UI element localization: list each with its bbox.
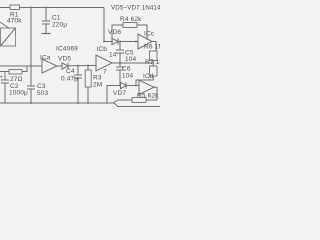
wire ICc out (152, 42, 156, 52)
wire VD5 to ICb (68, 65, 96, 67)
op-amp ICb (96, 55, 112, 71)
svg-text:7: 7 (103, 69, 107, 76)
resistor R7 (150, 66, 158, 76)
svg-text:104: 104 (125, 56, 137, 63)
svg-text:1000μ: 1000μ (9, 90, 28, 97)
piezo transducer B (0, 22, 16, 46)
node input junction (30, 65, 32, 67)
resistor R5 (113, 98, 157, 104)
svg-text:C6: C6 (122, 66, 131, 73)
svg-text:C4: C4 (66, 68, 75, 75)
node ladder tap (152, 62, 154, 64)
node VD6 anode rail (103, 41, 105, 43)
wire R6 to R7 (152, 61, 154, 67)
op-amp ICa (42, 59, 57, 73)
node VD7 ground (106, 102, 108, 104)
wire ground rail (0, 103, 160, 107)
svg-text:R4 62k: R4 62k (120, 16, 142, 23)
node C6 bottom junction (119, 85, 121, 87)
svg-text:ICd: ICd (143, 73, 154, 80)
node C5 top junction (119, 41, 121, 43)
svg-text:14: 14 (109, 52, 117, 59)
node ICd input junction (135, 85, 137, 87)
svg-text:R3: R3 (93, 75, 102, 82)
diode VD6 (112, 38, 118, 44)
svg-text:C3: C3 (37, 83, 46, 90)
capacitor C4 (74, 66, 82, 103)
node ICb out junction (119, 62, 121, 64)
svg-text:C1: C1 (52, 15, 61, 22)
svg-text:VD7: VD7 (113, 90, 126, 97)
op-amp ICd (139, 80, 154, 95)
wire VD7 to ICd (126, 85, 139, 87)
wire ICa out (57, 65, 62, 67)
svg-text:VD6: VD6 (108, 29, 121, 36)
svg-text:ICa: ICa (40, 55, 51, 62)
svg-text:ICb: ICb (97, 46, 108, 53)
wire top rail corner down (103, 8, 105, 42)
node ICc input junction (135, 41, 137, 43)
svg-text:470k: 470k (7, 18, 22, 25)
wire 27ohm branch right (22, 66, 27, 72)
node R4 left junction (111, 41, 113, 43)
wire VD6 cathode (118, 41, 138, 43)
svg-text:R6 1M: R6 1M (144, 44, 160, 51)
diode VD7 (121, 82, 127, 88)
svg-text:+: + (0, 75, 3, 81)
wire input line (0, 65, 42, 67)
wire ICb out (112, 62, 153, 64)
resistor R1 (10, 5, 20, 10)
resistor R6 (150, 51, 158, 61)
svg-text:220μ: 220μ (52, 22, 67, 29)
wire C3 column upper (30, 66, 32, 86)
diode VD5 (62, 63, 68, 69)
capacitor C1 (42, 8, 51, 34)
svg-text:2M: 2M (93, 82, 102, 89)
node R1 junction (30, 7, 32, 9)
svg-text:R7 1M: R7 1M (145, 59, 160, 66)
svg-text:503: 503 (37, 90, 49, 97)
capacitor C5 (116, 42, 124, 64)
node C3 ground (30, 102, 32, 104)
resistor 27ohm (9, 70, 22, 75)
svg-text:27Ω: 27Ω (10, 76, 23, 83)
svg-text:ICc: ICc (144, 31, 155, 38)
wire 27ohm branch left (0, 71, 9, 73)
wire R7 bottom tap (136, 76, 153, 86)
svg-text:104: 104 (122, 73, 134, 80)
capacitor C3 (27, 86, 35, 103)
svg-text:R5 62k: R5 62k (137, 93, 159, 100)
capacitor C6 (116, 63, 124, 86)
svg-text:0.47μ: 0.47μ (61, 76, 78, 83)
wire vertical from R1 node (30, 8, 32, 67)
resistor R3 (85, 66, 91, 104)
svg-text:VD5: VD5 (58, 56, 71, 63)
node R3 junction (87, 65, 89, 67)
wire top rail right (20, 7, 105, 9)
node C4 ground (77, 102, 79, 104)
node C1 junction (45, 7, 47, 9)
node R3 ground (87, 102, 89, 104)
wire ICd out (154, 87, 157, 100)
wire top rail left (0, 7, 10, 9)
op-amp ICc (138, 34, 152, 49)
svg-text:IC4069: IC4069 (56, 46, 78, 53)
wire VD7 anode ground drop (107, 86, 120, 104)
svg-text:VD5~VD7 1N4148: VD5~VD7 1N4148 (111, 5, 160, 12)
capacitor C2 (1, 72, 9, 104)
wire VD6 anode (104, 41, 112, 43)
resistor R4 (112, 23, 147, 42)
node C4 junction (77, 65, 79, 67)
